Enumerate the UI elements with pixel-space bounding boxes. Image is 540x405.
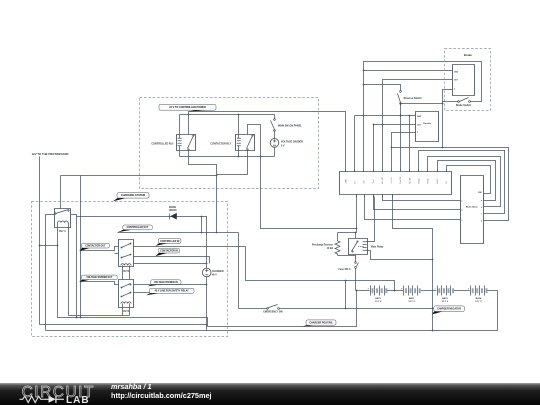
wire precharge/relay rails <box>338 232 357 234</box>
svg-text:1N4148: 1N4148 <box>169 209 178 212</box>
wire rail B <box>180 114 275 116</box>
wire RLY3 coil pins <box>58 228 69 318</box>
dashed enclosure: controller power box <box>140 98 319 189</box>
wire branch down to emergency row <box>345 281 347 309</box>
battery BAT1 <box>370 288 387 293</box>
svg-text:LAB: LAB <box>66 395 90 405</box>
wire throttle 5V row <box>392 133 416 172</box>
wire phase b <box>374 195 461 210</box>
wire GND riser <box>364 62 482 172</box>
svg-text:Reverse Switch: Reverse Switch <box>404 97 423 100</box>
svg-text:EMERGENCY SW: EMERGENCY SW <box>263 312 283 314</box>
svg-text:48 V: 48 V <box>212 274 217 277</box>
net flag CHARGING SYSTEM <box>117 193 149 199</box>
controller pin Hall A <box>418 170 420 172</box>
svg-text:c: c <box>481 214 482 216</box>
svg-text:a: a <box>481 200 482 202</box>
brake sensor box <box>453 65 475 96</box>
svg-text:CONTACTOR OUT: CONTACTOR OUT <box>85 244 106 247</box>
svg-text:http://circuitlab.com/c275mej: http://circuitlab.com/c275mej <box>111 391 212 400</box>
svg-text:CHARGING SYSTEM: CHARGING SYSTEM <box>121 194 145 197</box>
controller box <box>340 172 452 195</box>
svg-text:5: 5 <box>454 89 455 91</box>
svg-text:GND: GND <box>417 116 422 118</box>
switch Brake Switch <box>458 101 460 103</box>
svg-text:Fuse 300 A: Fuse 300 A <box>338 268 350 271</box>
wire pin riser <box>409 116 411 172</box>
svg-text:5: 5 <box>417 132 418 134</box>
wire brake switch left leg <box>443 101 458 103</box>
diode 1N4148 <box>170 213 177 220</box>
battery BAT4 <box>470 288 487 293</box>
throttle box <box>416 112 439 142</box>
net flag CHARGER POSITIVE <box>306 320 336 325</box>
wire phase c <box>365 195 461 220</box>
dashed enclosure: brake <box>445 49 491 111</box>
svg-text:48 V LINE FOR SAFETY RELAY: 48 V LINE FOR SAFETY RELAY <box>155 290 189 293</box>
controller pin 12V <box>363 170 365 172</box>
wire voltage divider out to RLY2 <box>81 282 119 285</box>
wire B+ drop <box>356 195 358 233</box>
controller pin B+ <box>354 170 356 172</box>
svg-text:12.7 V: 12.7 V <box>475 301 482 303</box>
svg-text:Hall B: Hall B <box>428 178 430 184</box>
wire switch to voltage divider <box>274 131 276 139</box>
svg-text:RLY2: RLY2 <box>123 311 129 313</box>
wire 5V loop outer <box>392 148 509 221</box>
source VOLTAGE DIVIDER 5V <box>270 139 279 148</box>
wire hall loop D <box>447 166 491 194</box>
svg-text:Brake: Brake <box>464 53 472 57</box>
controller pin GND <box>345 170 347 172</box>
net flag CONTROLLER IN <box>158 239 181 244</box>
svg-text:BAT2: BAT2 <box>409 297 415 300</box>
svg-text:12.7 V: 12.7 V <box>408 301 415 303</box>
wire coil pin up <box>367 197 375 242</box>
wire RLY3 right pin drop <box>71 215 77 318</box>
svg-text:b: b <box>481 207 482 209</box>
wire throttle GND row <box>355 115 416 117</box>
wire reverse row <box>364 85 401 91</box>
wire K2 switch wrap to B+ column <box>248 125 357 229</box>
svg-text:VOLTAGE DIVIDER IN: VOLTAGE DIVIDER IN <box>154 281 178 284</box>
source CHARGER 48V <box>202 268 211 277</box>
svg-text:CONTROLLED RLY: CONTROLLED RLY <box>151 143 174 146</box>
wire 12V drop <box>39 157 41 325</box>
controller pin Brk 48 <box>409 170 411 172</box>
svg-text:RLY0: RLY0 <box>123 271 129 273</box>
svg-text:Throttle: Throttle <box>423 122 432 125</box>
svg-text:VOLTAGE DIVIDER: VOLTAGE DIVIDER <box>281 141 303 144</box>
svg-text:12V TO THE PROTOBOARD: 12V TO THE PROTOBOARD <box>32 152 69 156</box>
wire coil pin to B- rail <box>367 251 433 260</box>
wire link to K2 switch bottom <box>217 151 248 175</box>
svg-text:Hall A: Hall A <box>418 178 421 184</box>
dashed enclosure: charging system box <box>32 202 228 337</box>
logo resistor-diode symbol <box>20 396 44 402</box>
controller pin Hall C <box>437 170 439 172</box>
wire K1 switch bottom to controller-out row <box>189 151 217 233</box>
svg-text:MAIN SW ON PANEL: MAIN SW ON PANEL <box>278 125 302 128</box>
motor BLDC box <box>461 176 484 244</box>
svg-text:12.7 V: 12.7 V <box>375 301 382 303</box>
svg-text:5 V: 5 V <box>281 144 285 147</box>
net flag VOLTAGE DIVIDER IN <box>151 280 181 285</box>
net flag 24 V TO CONTROLLER POWER <box>159 104 216 110</box>
wire 48v line row <box>134 292 150 294</box>
wire throttle OUT row <box>374 125 416 172</box>
wire voltage divider in row <box>134 284 207 286</box>
wire 12V bottom bus <box>40 325 207 331</box>
wire hall loop C <box>438 161 496 201</box>
wire phase a <box>383 195 461 201</box>
wire RLY2 coil bottoms <box>123 308 130 316</box>
svg-text:GND: GND <box>454 71 459 73</box>
relay CONTACTOR RLY <box>236 135 255 151</box>
resistor precharge 10k <box>335 233 340 256</box>
wire main switch feed <box>274 115 276 119</box>
controller pin 5V <box>446 170 448 172</box>
wire charger positive row <box>208 291 357 327</box>
relay RLY2 <box>119 280 134 308</box>
svg-text:Crs Ctl: Crs Ctl <box>390 177 393 183</box>
svg-text:Brake Switch: Brake Switch <box>456 104 472 107</box>
wire controller-in row to battery tap <box>134 247 395 291</box>
svg-text:GND: GND <box>345 179 347 184</box>
battery BAT3 <box>436 288 453 293</box>
wire contactor-in row <box>134 257 210 264</box>
controller pin Thrtl <box>373 170 375 172</box>
wire long bottom bus <box>46 291 498 331</box>
wire brake 5V pin leg <box>443 90 453 148</box>
fuse 300A <box>355 262 357 264</box>
wire hall loop B <box>428 157 501 207</box>
svg-text:Rev SW: Rev SW <box>400 176 402 183</box>
controller pin Rev SW <box>400 170 402 172</box>
svg-text:Brk SW: Brk SW <box>381 177 384 184</box>
svg-text:d: d <box>481 221 482 223</box>
wire RLY0 coil pins to RLY2 <box>123 267 130 280</box>
svg-text:CONTROLLER IN: CONTROLLER IN <box>160 241 179 243</box>
battery string <box>357 290 498 292</box>
wire K2 coil top pin <box>238 115 240 135</box>
svg-text:RLY 3: RLY 3 <box>59 231 66 233</box>
wire horizontal bus y175 <box>61 175 217 177</box>
wire controller out row <box>118 232 239 234</box>
wire contactor out to RLY0 <box>81 247 119 251</box>
svg-text:Main Relay: Main Relay <box>371 245 384 248</box>
net flag CHARGER NEGATIVE <box>434 306 465 312</box>
svg-text:b: b <box>462 209 463 211</box>
switch EMERGENCY SW <box>239 308 268 310</box>
wire VD bottom <box>274 148 276 157</box>
net flag CONTROLLER OUT <box>123 225 153 230</box>
relay RLY0 <box>119 240 134 267</box>
wire RLY3 left pin to bottom bus <box>46 215 55 331</box>
net flag 48 V LINE FOR SAFETY RELAY <box>149 288 194 293</box>
net flag CONTACTOR OUT <box>81 243 109 248</box>
controller pin Hall B <box>427 170 429 172</box>
svg-text:DIODE: DIODE <box>169 207 177 209</box>
wire charger top row <box>134 263 207 265</box>
wire charger bottom column <box>206 277 208 327</box>
switch Reverse Switch <box>400 91 402 93</box>
svg-text:CHARGER POSITIVE: CHARGER POSITIVE <box>309 321 333 324</box>
svg-text:BLDC Motor: BLDC Motor <box>466 205 478 208</box>
wire relay K1 switch top pin <box>188 112 190 135</box>
wire hall loop A <box>419 151 505 214</box>
relay CONTROLLED RLY <box>177 135 196 151</box>
svg-text:CHARGER: CHARGER <box>212 270 224 273</box>
battery BAT2 <box>403 288 420 293</box>
svg-text:Hall C: Hall C <box>437 178 439 184</box>
footer bar <box>0 383 540 405</box>
controller pin Brk SW <box>382 170 384 172</box>
wire brake GND row <box>364 70 453 72</box>
wire diode row drop to controller-out row <box>201 217 203 233</box>
svg-text:Thrtl: Thrtl <box>372 179 375 183</box>
wire B- drop <box>393 195 433 331</box>
wire contactor-out drop <box>80 176 82 318</box>
svg-text:VOLTAGE DIVIDER OUT: VOLTAGE DIVIDER OUT <box>86 276 113 279</box>
controller pin Crs Ctl <box>391 170 393 172</box>
svg-text:BAT4: BAT4 <box>476 297 482 300</box>
net flag CONTACTOR IN <box>158 248 179 253</box>
svg-text:Brk 48: Brk 48 <box>408 178 411 183</box>
svg-text:BAT1: BAT1 <box>375 297 381 300</box>
wire reverse bottom to brake switch leg <box>401 103 443 105</box>
relay Main Relay <box>349 239 368 255</box>
relay RLY 3 <box>55 209 71 228</box>
wire bottom rail of box <box>180 156 275 158</box>
svg-text:BAT3: BAT3 <box>442 297 448 300</box>
switch MAIN SW ON PANEL <box>274 119 276 121</box>
svg-text:CONTACTOR RLY: CONTACTOR RLY <box>210 143 231 146</box>
wire RLY3 top pin <box>60 176 62 209</box>
svg-text:10 kΩ: 10 kΩ <box>327 248 333 250</box>
svg-text:c: c <box>462 220 463 222</box>
diode D1 wire <box>77 217 207 269</box>
wire 24V rail A <box>189 112 346 172</box>
net flag VOLTAGE DIVIDER OUT <box>81 275 117 280</box>
svg-text:a: a <box>462 200 463 202</box>
svg-text:CONTROLLER OUT: CONTROLLER OUT <box>127 227 149 229</box>
wire RLY0 lower left pin <box>115 253 119 255</box>
wire pin2 riser to GND row <box>354 116 356 172</box>
wire emergency drop <box>238 233 240 309</box>
svg-text:CONTACTOR IN: CONTACTOR IN <box>160 249 178 252</box>
wire main relay pins <box>355 233 357 262</box>
wire K1 coil top pin <box>179 115 181 135</box>
svg-text:mrsahba / 1: mrsahba / 1 <box>111 382 152 391</box>
svg-text:24 V TO CONTROLLER POWER: 24 V TO CONTROLLER POWER <box>169 106 206 109</box>
wire brake OUT riser/row <box>383 80 453 172</box>
svg-text:12.7 V: 12.7 V <box>442 301 449 303</box>
svg-text:Precharge Resistor: Precharge Resistor <box>312 243 333 246</box>
svg-text:CHARGER NEGATIVE: CHARGER NEGATIVE <box>437 308 462 311</box>
wire mid bottom bus <box>58 318 208 327</box>
